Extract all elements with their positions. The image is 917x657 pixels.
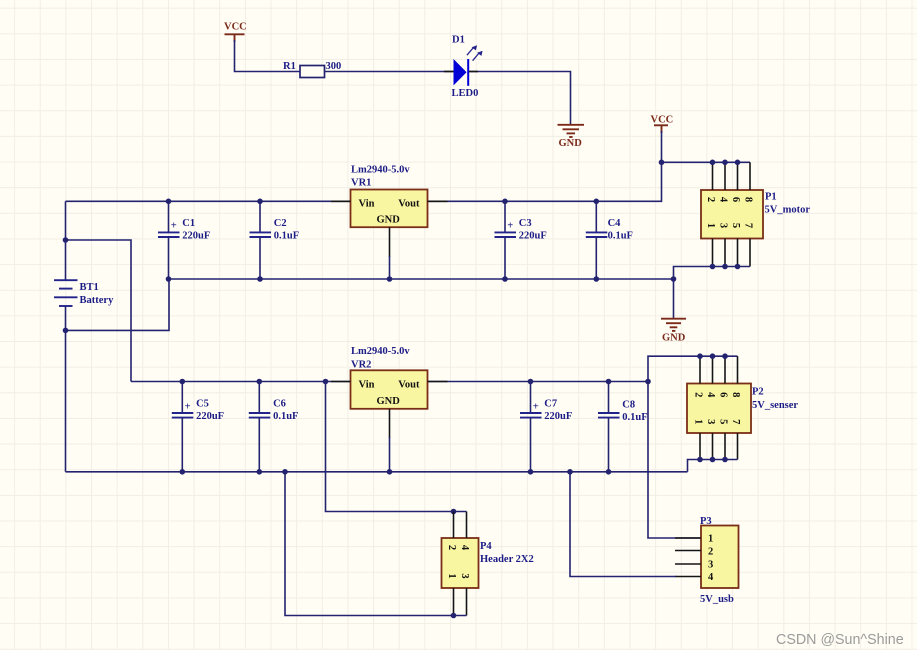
- pin P2-6: [724, 356, 726, 383]
- svg-text:+: +: [533, 401, 539, 412]
- svg-text:Vout: Vout: [398, 198, 420, 209]
- svg-text:+: +: [185, 401, 191, 412]
- node P1 pin5: [735, 264, 741, 270]
- svg-text:5V_motor: 5V_motor: [765, 205, 811, 216]
- svg-text:GND: GND: [377, 215, 401, 226]
- node C5 top: [180, 379, 186, 385]
- wire VCC to R1: [235, 40, 301, 72]
- svg-text:P4: P4: [480, 541, 492, 552]
- svg-text:R1: R1: [283, 61, 296, 72]
- node rail1 gnd junction: [671, 276, 677, 282]
- svg-text:BT1: BT1: [80, 282, 99, 293]
- svg-text:6: 6: [718, 392, 729, 397]
- node P4 pin2: [451, 509, 457, 515]
- pin numbers P3: [708, 534, 714, 584]
- svg-text:8: 8: [730, 392, 741, 397]
- svg-text:GND: GND: [377, 396, 401, 407]
- svg-text:C3: C3: [519, 218, 532, 229]
- node P2 pin4: [710, 353, 716, 359]
- pin P2-8: [737, 356, 739, 383]
- svg-text:2: 2: [708, 547, 713, 558]
- pin D1 cathode: [469, 71, 478, 73]
- svg-text:2: 2: [693, 392, 704, 397]
- svg-text:220uF: 220uF: [519, 231, 547, 242]
- battery BT1: [54, 240, 114, 330]
- wire rail2 top right (VR2 Vout to P2): [428, 381, 649, 383]
- svg-text:Header 2X2: Header 2X2: [480, 554, 534, 565]
- node P2 pin6: [722, 353, 728, 359]
- svg-text:220uF: 220uF: [544, 411, 572, 422]
- svg-text:1: 1: [708, 534, 713, 545]
- node C5 bottom: [180, 469, 186, 475]
- node C7 bottom: [528, 469, 534, 475]
- pin VR1 Vout: [428, 200, 448, 202]
- wire D1 to GND: [469, 72, 571, 125]
- node P1 pin2: [710, 160, 716, 166]
- node P1 pin4: [722, 160, 728, 166]
- svg-text:VCC: VCC: [651, 114, 674, 125]
- pin P1-4: [724, 162, 726, 190]
- svg-text:5V_usb: 5V_usb: [700, 594, 734, 605]
- svg-text:3: 3: [705, 419, 716, 424]
- pin VR2 Vin: [331, 381, 351, 383]
- svg-text:4: 4: [705, 392, 716, 398]
- svg-text:+: +: [171, 221, 177, 232]
- resistor R1 value 300: [283, 61, 341, 78]
- ground GND (top, for LED): [558, 125, 585, 149]
- pin P2-5: [724, 433, 726, 460]
- svg-text:Battery: Battery: [80, 295, 115, 306]
- svg-text:220uF: 220uF: [182, 231, 210, 242]
- pin P4-2: [453, 512, 455, 539]
- svg-text:Lm2940-5.0v: Lm2940-5.0v: [351, 346, 410, 357]
- node C3 top: [502, 199, 508, 205]
- regulator VR1 Lm2940-5.0v: [351, 165, 428, 228]
- wire P4 pins 2,4 feed from rail2 top: [326, 382, 467, 512]
- svg-text:D1: D1: [452, 34, 465, 45]
- svg-text:7: 7: [743, 223, 754, 228]
- node P2 feed junction: [645, 379, 651, 385]
- svg-text:4: 4: [459, 545, 470, 551]
- wire R1 to D1: [325, 71, 454, 73]
- header P3 5V_usb: [700, 516, 739, 605]
- svg-text:2: 2: [446, 545, 457, 550]
- wire rail1 top (battery+ to VR1 Vin): [66, 200, 351, 202]
- wire battery- to rail1 bottom via x=169: [66, 279, 170, 330]
- svg-text:Vin: Vin: [359, 198, 375, 209]
- pin P4-1: [453, 588, 455, 616]
- node P1 pin1: [710, 264, 716, 270]
- pin numbers P4 top row: [446, 545, 470, 551]
- header P1 5V_motor: [701, 190, 810, 239]
- pin P1-6: [737, 162, 739, 190]
- svg-text:GND: GND: [559, 138, 583, 149]
- node C7 top: [528, 379, 534, 385]
- node battery- junction: [63, 328, 69, 334]
- capacitor C4 0.1uF: [586, 201, 633, 279]
- capacitor C3 220uF: [495, 201, 547, 279]
- pin numbers P1 bottom row: [705, 223, 754, 228]
- svg-text:220uF: 220uF: [196, 411, 224, 422]
- svg-text:4: 4: [718, 197, 729, 203]
- svg-text:C8: C8: [622, 400, 635, 411]
- LED D1 (LED0): [452, 34, 483, 99]
- wire P1 bottom pins to gnd: [674, 267, 751, 319]
- wire rail2 corner up to P2 top pins: [648, 356, 738, 381]
- svg-text:VCC: VCC: [224, 22, 247, 33]
- pin P4-4: [466, 512, 468, 539]
- node battery+ junction: [63, 237, 69, 243]
- svg-text:P3: P3: [700, 516, 712, 527]
- svg-text:Lm2940-5.0v: Lm2940-5.0v: [351, 165, 410, 176]
- svg-text:0.1uF: 0.1uF: [622, 412, 647, 423]
- node C2 bottom: [257, 276, 263, 282]
- capacitor C5 220uF: [172, 382, 224, 472]
- node P2 pin1: [697, 457, 703, 463]
- pin P2-2: [699, 356, 701, 383]
- wire rail2 top (battery+ to VR2 Vin): [131, 381, 351, 383]
- svg-text:GND: GND: [662, 332, 686, 343]
- pin P1-8: [749, 162, 751, 190]
- svg-text:1: 1: [693, 419, 704, 424]
- wire rail2 bottom: [66, 471, 688, 473]
- ground GND (section 1): [661, 319, 686, 344]
- node C8 top: [606, 379, 612, 385]
- capacitor C6 0.1uF: [249, 382, 299, 472]
- pin P2-3: [712, 433, 714, 460]
- wire node to P1 top pins: [662, 161, 751, 163]
- pin P1-1: [712, 239, 714, 267]
- svg-text:LED0: LED0: [452, 88, 479, 99]
- node C1 top: [166, 199, 172, 205]
- svg-text:VR2: VR2: [351, 359, 371, 370]
- svg-text:5V_senser: 5V_senser: [752, 400, 798, 411]
- node VR2 gnd to rail2: [387, 469, 393, 475]
- svg-text:C7: C7: [544, 399, 557, 410]
- pin D1 anode: [444, 71, 454, 73]
- node P4 return junction: [282, 469, 288, 475]
- svg-text:2: 2: [705, 197, 716, 202]
- pin P1-7: [749, 239, 751, 267]
- node C1 bottom: [166, 276, 172, 282]
- svg-text:4: 4: [708, 572, 714, 583]
- svg-text:5: 5: [730, 223, 741, 228]
- svg-text:7: 7: [730, 419, 741, 424]
- pin numbers P1 top row: [705, 197, 754, 203]
- node VR1 gnd to rail: [387, 276, 393, 282]
- svg-text:0.1uF: 0.1uF: [608, 231, 633, 242]
- svg-text:VR1: VR1: [351, 178, 371, 189]
- svg-text:Vin: Vin: [359, 379, 375, 390]
- svg-text:P1: P1: [765, 192, 777, 203]
- node P3 pin4 junction: [567, 469, 573, 475]
- svg-text:3: 3: [718, 223, 729, 228]
- pin P1-5: [737, 239, 739, 267]
- pin P3-2: [675, 550, 701, 552]
- svg-text:6: 6: [730, 197, 741, 202]
- capacitor C2 0.1uF: [250, 201, 300, 279]
- capacitor C7 220uF: [520, 382, 572, 472]
- wire battery- down to rail2 bottom: [65, 330, 67, 471]
- svg-text:1: 1: [705, 223, 716, 228]
- wire P4 pins 1,3 to rail2 bottom: [285, 472, 467, 616]
- pin P2-7: [737, 433, 739, 460]
- wire rail1 top right (VR1 Vout to VCC corner): [428, 162, 662, 201]
- svg-text:C1: C1: [182, 218, 195, 229]
- node C6 bottom: [257, 469, 263, 475]
- pin P1-3: [724, 239, 726, 267]
- power port VCC (net VCC at VR1 output): [651, 114, 674, 133]
- node P4 pin1: [451, 613, 457, 619]
- pin P3-1: [675, 537, 701, 539]
- node C4 bottom: [594, 276, 600, 282]
- node P2 pin2: [697, 353, 703, 359]
- node P2 pin5: [722, 457, 728, 463]
- pin numbers P2 top row: [693, 392, 742, 398]
- pin P3-3: [675, 563, 701, 565]
- pin numbers P4 bottom row: [446, 573, 470, 578]
- pin numbers P2 bottom row: [693, 419, 742, 424]
- pin P2-4: [712, 356, 714, 383]
- pin P2-1: [699, 433, 701, 460]
- wire P3 pin4 to rail2 bottom: [570, 472, 676, 577]
- wire P2 bottom pins to rail2: [688, 460, 738, 472]
- svg-text:0.1uF: 0.1uF: [274, 231, 299, 242]
- svg-text:Vout: Vout: [398, 379, 420, 390]
- svg-text:3: 3: [459, 573, 470, 578]
- wire rail1 bottom (gnd rail): [169, 278, 674, 280]
- node C8 bottom: [606, 469, 612, 475]
- capacitor C1 220uF: [158, 201, 210, 279]
- svg-text:C6: C6: [273, 399, 286, 410]
- pin P3-4: [675, 576, 701, 578]
- power port VCC (top, net VCC): [224, 22, 247, 43]
- pin P4-3: [466, 588, 468, 616]
- node C2 top: [257, 199, 263, 205]
- node VCC/P1 junction: [659, 160, 665, 166]
- pin VR2 Vout: [428, 381, 448, 383]
- svg-text:3: 3: [708, 560, 713, 571]
- wire 5V down to P3 pin1: [648, 382, 701, 539]
- svg-text:P2: P2: [752, 387, 764, 398]
- pin P1-2: [712, 162, 714, 190]
- pin VR2 GND: [389, 409, 391, 438]
- wire battery+ to VR2 input (down x=131): [66, 240, 132, 382]
- node P2 pin3: [710, 457, 716, 463]
- node P1 pin6: [735, 160, 741, 166]
- svg-text:C5: C5: [196, 399, 209, 410]
- svg-text:0.1uF: 0.1uF: [273, 411, 298, 422]
- wire VCC2 down to node: [661, 131, 663, 162]
- wire battery+ up to rail1: [65, 201, 67, 240]
- node C6 top: [257, 379, 263, 385]
- pin VR1 GND: [389, 227, 391, 257]
- pin VR1 Vin: [331, 200, 351, 202]
- svg-text:1: 1: [446, 573, 457, 578]
- node P4 feed junction: [323, 379, 329, 385]
- node C4 top: [594, 199, 600, 205]
- svg-text:C4: C4: [608, 218, 622, 229]
- svg-text:300: 300: [326, 61, 342, 72]
- svg-text:C2: C2: [274, 218, 287, 229]
- svg-text:8: 8: [743, 197, 754, 202]
- node C3 bottom: [502, 276, 508, 282]
- regulator VR2 Lm2940-5.0v: [351, 346, 428, 409]
- svg-text:5: 5: [718, 419, 729, 424]
- svg-text:+: +: [507, 221, 513, 232]
- node P1 pin3: [722, 264, 728, 270]
- capacitor C8 0.1uF: [598, 382, 648, 472]
- header P2 5V_senser: [687, 384, 798, 434]
- header P4 Header 2X2: [442, 538, 534, 588]
